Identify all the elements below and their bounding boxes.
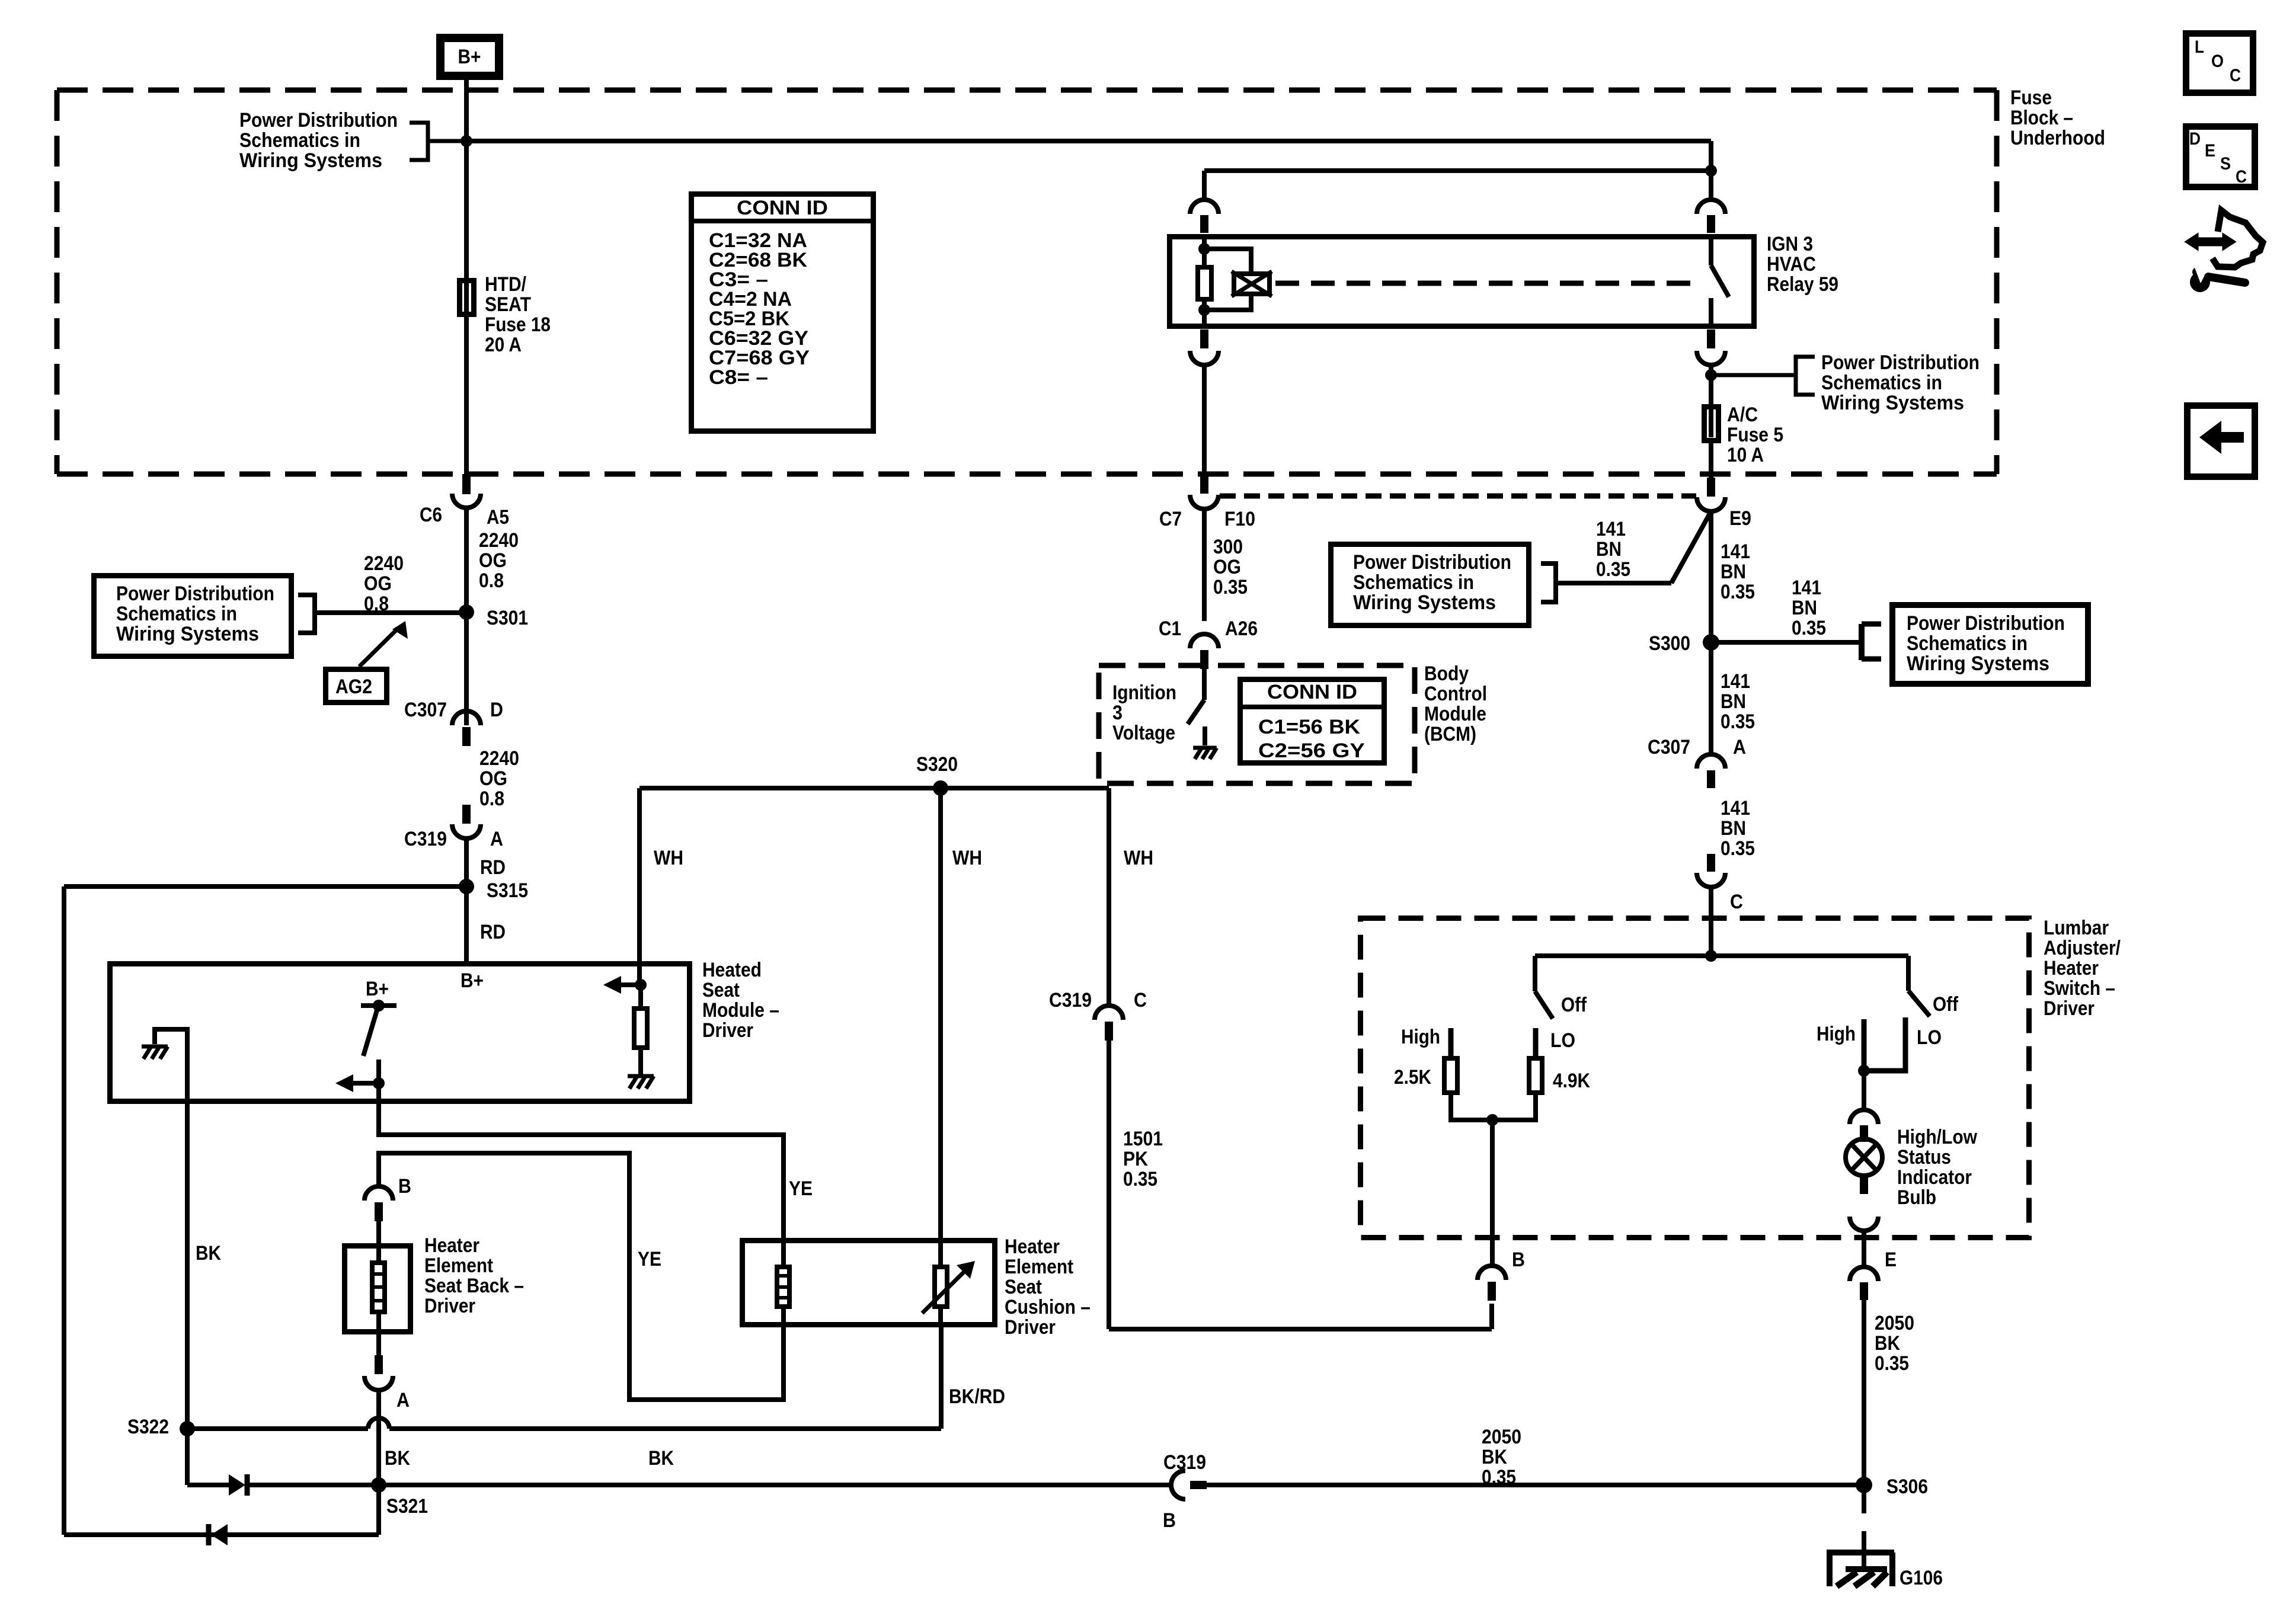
- svg-text:0.35: 0.35: [1792, 617, 1826, 639]
- svg-text:2240: 2240: [479, 529, 519, 552]
- svg-text:Adjuster/: Adjuster/: [2044, 937, 2121, 959]
- node resistor junction: [1486, 1114, 1498, 1126]
- svg-text:Block –: Block –: [2010, 107, 2073, 129]
- module sense resistor: [638, 985, 643, 1006]
- wire S300 branch right: [1711, 640, 1862, 645]
- svg-text:Driver: Driver: [702, 1019, 753, 1042]
- lumbar right High stub: [1862, 1019, 1867, 1071]
- svg-text:C307: C307: [1648, 736, 1690, 758]
- connector C307-C pin: [1707, 854, 1715, 872]
- svg-text:D: D: [490, 699, 503, 721]
- module output arrow: [352, 1081, 379, 1086]
- relay dashed link: [1275, 281, 1693, 286]
- svg-text:E: E: [2205, 141, 2215, 161]
- wire B to element: [376, 1221, 381, 1260]
- BCM dashed box: [1099, 665, 1415, 783]
- lumbar right switch blade: [1908, 991, 1930, 1016]
- svg-text:YE: YE: [638, 1248, 661, 1270]
- svg-text:S301: S301: [487, 607, 528, 629]
- svg-text:0.35: 0.35: [1123, 1168, 1157, 1190]
- CONN ID table: [692, 194, 874, 431]
- connector C1-A26: [1190, 634, 1219, 648]
- bulb bottom connector: [1860, 1176, 1868, 1194]
- svg-text:C307: C307: [404, 699, 447, 721]
- svg-text:S306: S306: [1886, 1475, 1928, 1498]
- svg-text:A: A: [396, 1389, 410, 1411]
- relay left pin connector: [1190, 200, 1219, 214]
- svg-text:Element: Element: [1005, 1256, 1073, 1278]
- svg-text:High: High: [1401, 1026, 1440, 1048]
- node bulb junction: [1858, 1065, 1870, 1077]
- svg-text:Module: Module: [1424, 703, 1486, 725]
- lumbar bus: [1535, 953, 1908, 958]
- svg-text:Driver: Driver: [2044, 997, 2094, 1020]
- wire fuse 5 to E9: [1709, 442, 1713, 478]
- svg-text:Power Distribution: Power Distribution: [239, 109, 398, 132]
- svg-text:A: A: [1733, 736, 1746, 758]
- svg-text:141: 141: [1792, 577, 1821, 599]
- bracket PDS box 1: [298, 595, 315, 633]
- bracket PDS box 2: [1541, 564, 1556, 602]
- svg-text:B+: B+: [458, 46, 481, 68]
- svg-text:A26: A26: [1225, 617, 1258, 640]
- svg-text:High: High: [1817, 1023, 1856, 1045]
- BCM ignition switch blade: [1188, 700, 1204, 724]
- wire S315 to module: [464, 886, 469, 961]
- svg-text:PK: PK: [1123, 1148, 1148, 1170]
- wire YE module to cushion: [379, 1104, 784, 1239]
- wire top bus to relay: [466, 139, 1711, 143]
- connector C6 pin: [462, 474, 471, 494]
- connector C307-C socket: [1697, 873, 1725, 887]
- svg-text:Control: Control: [1424, 683, 1487, 705]
- connector seat back A: [375, 1355, 383, 1374]
- svg-text:C: C: [2236, 167, 2247, 187]
- connector C6 socket: [452, 494, 481, 508]
- cushion variable element: [935, 1267, 947, 1307]
- wire cushion ladder: [781, 1239, 786, 1265]
- svg-text:Module –: Module –: [702, 999, 779, 1022]
- lumbar left switch blade: [1535, 991, 1553, 1019]
- node relay feed junction: [1705, 165, 1717, 177]
- svg-text:4.9K: 4.9K: [1553, 1070, 1590, 1092]
- DESC icon: [2186, 127, 2255, 187]
- svg-text:BN: BN: [1596, 538, 1622, 561]
- wire relay second bus: [1204, 168, 1711, 173]
- svg-text:C319: C319: [1049, 989, 1092, 1012]
- fuse block underhood dashed box: [57, 90, 1997, 474]
- svg-text:S320: S320: [916, 753, 958, 776]
- bracket PDS (relay right): [1711, 373, 1796, 377]
- svg-text:LO: LO: [1550, 1029, 1575, 1052]
- wire relay feed vertical: [1709, 141, 1713, 201]
- module sense junction: [635, 979, 647, 991]
- module sense arrow: [619, 982, 641, 987]
- svg-text:Schematics in: Schematics in: [239, 129, 360, 152]
- wire left BK down: [62, 886, 66, 1535]
- wire A to S321: [376, 1390, 381, 1485]
- wire C1 into BCM: [1202, 669, 1207, 700]
- wire WH left vertical: [637, 788, 642, 985]
- wire 1501 PK horizontal: [1109, 1327, 1492, 1331]
- power distribution box 1: [94, 576, 292, 657]
- power distribution box 2: [1331, 545, 1529, 626]
- wire E9 fork diagonal: [1671, 511, 1711, 583]
- splice S322: [180, 1421, 195, 1436]
- wire relay to C7: [1202, 365, 1207, 475]
- wire BK/RD down: [939, 1326, 944, 1429]
- svg-text:2050: 2050: [1875, 1312, 1914, 1334]
- svg-text:L: L: [2195, 37, 2204, 57]
- svg-text:B: B: [1512, 1249, 1525, 1271]
- svg-text:2240: 2240: [479, 747, 519, 770]
- svg-text:Status: Status: [1897, 1146, 1951, 1169]
- diode D2: [211, 1524, 228, 1545]
- wire S320 down to cushion element: [938, 788, 943, 1239]
- fuse block connector row dotted line: [1220, 494, 1696, 499]
- wire YE return: [379, 1153, 784, 1400]
- svg-text:AG2: AG2: [335, 676, 372, 698]
- relay switch: [1709, 234, 1713, 265]
- power distribution box 3: [1892, 605, 2088, 684]
- relay X box: [1234, 274, 1269, 294]
- bulb top connector: [1850, 1110, 1878, 1124]
- module switch lower stub: [376, 1060, 381, 1083]
- wire bottom diode row: [64, 1532, 379, 1537]
- svg-text:Relay 59: Relay 59: [1767, 273, 1838, 296]
- svg-text:141: 141: [1721, 540, 1750, 563]
- wire bulb to E: [1862, 1231, 1866, 1268]
- svg-text:Power Distribution: Power Distribution: [1821, 351, 1980, 374]
- svg-text:0.8: 0.8: [479, 788, 504, 810]
- svg-text:0.35: 0.35: [1721, 710, 1755, 733]
- wire C319-A to S315: [464, 838, 469, 886]
- connector C319-C: [1095, 1006, 1123, 1020]
- svg-text:Fuse 18: Fuse 18: [485, 313, 551, 336]
- wire module output down: [376, 1083, 381, 1104]
- svg-text:Cushion –: Cushion –: [1005, 1296, 1091, 1318]
- relay right pin connector: [1697, 200, 1725, 214]
- heater element seat back box: [345, 1246, 411, 1332]
- svg-text:Power Distribution: Power Distribution: [1907, 612, 2065, 635]
- svg-text:BK: BK: [1482, 1446, 1507, 1468]
- wire diode to S321: [248, 1483, 379, 1487]
- svg-text:OG: OG: [479, 549, 507, 572]
- svg-text:BK: BK: [196, 1242, 221, 1265]
- svg-text:C319: C319: [1163, 1451, 1206, 1474]
- wire 1501 PK: [1107, 1041, 1111, 1329]
- svg-text:BK: BK: [385, 1447, 410, 1470]
- wire E9 fork horizontal: [1556, 581, 1671, 585]
- svg-text:0.35: 0.35: [1482, 1466, 1516, 1489]
- svg-text:RD: RD: [480, 856, 506, 879]
- svg-text:0.8: 0.8: [479, 569, 504, 592]
- svg-text:Wiring Systems: Wiring Systems: [1907, 652, 2049, 675]
- back arrow icon: [2188, 406, 2255, 477]
- node top junction: [461, 135, 472, 147]
- svg-text:Power Distribution: Power Distribution: [116, 582, 274, 605]
- svg-text:OG: OG: [479, 767, 507, 790]
- connector C7: [1200, 475, 1208, 494]
- connector lumbar B: [1478, 1266, 1506, 1280]
- connector C307-D: [452, 711, 481, 725]
- svg-text:A5: A5: [487, 506, 509, 529]
- wire S301 branch left: [315, 610, 466, 615]
- connector C319-A pin: [462, 805, 471, 824]
- svg-text:A: A: [490, 828, 503, 850]
- svg-text:Schematics in: Schematics in: [1353, 571, 1474, 594]
- wire junction to fuse 18: [464, 141, 469, 280]
- svg-text:0.35: 0.35: [1721, 837, 1755, 860]
- wire S320 bus: [639, 786, 1109, 790]
- svg-text:B: B: [1163, 1509, 1176, 1532]
- svg-text:BK: BK: [1875, 1332, 1900, 1355]
- splice S301: [459, 604, 474, 620]
- svg-text:2050: 2050: [1482, 1426, 1521, 1448]
- relay coil bypass loop: [1204, 249, 1251, 271]
- fuse 18 HTD/SEAT: [460, 281, 474, 315]
- module left ground: [142, 1046, 168, 1059]
- svg-text:WH: WH: [1124, 847, 1153, 869]
- heater element cushion box: [743, 1241, 995, 1325]
- wire E to S306: [1862, 1300, 1866, 1485]
- svg-text:LO: LO: [1917, 1026, 1942, 1049]
- wire S321 line to C319-B: [379, 1483, 1171, 1487]
- svg-text:Seat Back –: Seat Back –: [424, 1275, 524, 1297]
- svg-text:G106: G106: [1900, 1567, 1943, 1589]
- svg-text:IGN 3: IGN 3: [1767, 233, 1813, 255]
- svg-text:Element: Element: [424, 1254, 493, 1277]
- splice S320: [933, 780, 948, 796]
- svg-text:300: 300: [1213, 536, 1243, 558]
- resistor 4.9K: [1529, 1058, 1542, 1093]
- connector C307-A: [1697, 754, 1725, 769]
- module left ground branch: [155, 1029, 187, 1104]
- connector seat back B: [364, 1186, 393, 1201]
- svg-text:(BCM): (BCM): [1424, 723, 1476, 745]
- svg-text:B+: B+: [366, 978, 389, 1000]
- wire element to A: [376, 1314, 381, 1356]
- module output junction: [373, 1077, 385, 1089]
- connector E9: [1707, 478, 1715, 497]
- diode D1: [229, 1474, 245, 1496]
- svg-text:C: C: [1730, 891, 1743, 913]
- splice S306: [1856, 1477, 1872, 1493]
- relay coil: [1198, 267, 1211, 299]
- svg-text:1501: 1501: [1123, 1128, 1163, 1150]
- svg-text:C1=56 BK: C1=56 BK: [1258, 716, 1360, 738]
- svg-text:Bulb: Bulb: [1897, 1186, 1936, 1209]
- relay left out pin: [1200, 329, 1208, 348]
- svg-text:Driver: Driver: [424, 1295, 475, 1317]
- LOC icon: [2186, 34, 2253, 93]
- bracket to power distribution (top left): [410, 123, 428, 160]
- svg-text:BN: BN: [1721, 690, 1746, 713]
- svg-text:B+: B+: [461, 969, 484, 992]
- svg-text:Lumbar: Lumbar: [2044, 917, 2109, 939]
- svg-text:Body: Body: [1424, 662, 1469, 685]
- lumbar LO contact stub: [1533, 1028, 1539, 1057]
- svg-text:C7: C7: [1159, 508, 1182, 530]
- AG2 arrow: [359, 628, 398, 667]
- module switch contact bar: [361, 1003, 396, 1008]
- svg-text:BN: BN: [1792, 597, 1817, 619]
- wire relay out to junction: [1709, 365, 1713, 405]
- svg-text:F10: F10: [1224, 508, 1255, 530]
- lumbar right switch stub: [1906, 956, 1911, 991]
- wire S322 to diode: [187, 1483, 229, 1487]
- svg-text:S315: S315: [487, 879, 528, 902]
- wire junction to B: [1490, 1120, 1495, 1267]
- svg-text:2.5K: 2.5K: [1394, 1066, 1431, 1089]
- cushion variable arrow: [922, 1272, 964, 1313]
- svg-text:0.35: 0.35: [1875, 1352, 1909, 1375]
- svg-text:Schematics in: Schematics in: [1907, 632, 2028, 655]
- connector E: [1850, 1267, 1878, 1281]
- BCM switch lower stub: [1203, 726, 1207, 745]
- svg-text:WH: WH: [952, 847, 982, 869]
- wire C6 to S301: [464, 508, 469, 613]
- connector C319-B: [1171, 1471, 1185, 1499]
- svg-text:S: S: [2220, 154, 2231, 174]
- wire fuse 18 to C6: [464, 317, 469, 475]
- svg-text:B: B: [398, 1175, 411, 1198]
- svg-text:C: C: [1134, 989, 1147, 1012]
- relay coil wire top: [1202, 234, 1207, 265]
- wire S301 to C307-D: [464, 612, 469, 725]
- svg-text:Heater: Heater: [424, 1234, 479, 1257]
- resistor 2.5K: [1444, 1058, 1457, 1093]
- wire BK module to S322: [185, 1104, 190, 1429]
- splice S300: [1703, 634, 1719, 651]
- svg-text:O: O: [2211, 52, 2224, 71]
- svg-text:Schematics in: Schematics in: [116, 603, 237, 625]
- svg-text:Voltage: Voltage: [1112, 722, 1175, 744]
- lumbar left switch stub: [1533, 956, 1537, 991]
- wire B+ down to junction: [464, 80, 469, 142]
- svg-text:C6: C6: [420, 504, 442, 526]
- svg-text:0.35: 0.35: [1596, 558, 1630, 581]
- svg-text:BK: BK: [648, 1447, 674, 1470]
- svg-text:OG: OG: [364, 572, 392, 595]
- ground G106: [1830, 1553, 1894, 1586]
- svg-text:C319: C319: [404, 828, 447, 850]
- indicator bulb: [1846, 1139, 1882, 1176]
- svg-text:10 A: 10 A: [1727, 444, 1764, 466]
- svg-text:Heater: Heater: [1005, 1235, 1060, 1258]
- svg-text:C8= –: C8= –: [709, 366, 768, 389]
- svg-text:0.35: 0.35: [1213, 576, 1248, 598]
- bracket PDS box 3: [1859, 624, 1865, 660]
- wire to lumbar B: [1489, 1304, 1494, 1329]
- fuse 5 A/C: [1705, 407, 1719, 441]
- cushion element symbol: [777, 1267, 789, 1307]
- svg-text:WH: WH: [654, 847, 683, 869]
- wire S315 branch left: [64, 884, 466, 889]
- svg-text:E9: E9: [1729, 507, 1751, 530]
- lumbar bus junction: [1705, 950, 1717, 962]
- svg-text:C1: C1: [1159, 617, 1181, 640]
- wire C7 to C1: [1202, 509, 1207, 621]
- dog wrench icon: [2212, 210, 2263, 267]
- svg-text:141: 141: [1721, 797, 1750, 820]
- lumbar High contact stub: [1448, 1028, 1454, 1057]
- lumbar switch dashed box: [1361, 918, 2029, 1238]
- svg-text:HVAC: HVAC: [1767, 253, 1816, 276]
- svg-text:OG: OG: [1213, 556, 1241, 578]
- svg-text:BN: BN: [1721, 561, 1746, 583]
- svg-text:Seat: Seat: [702, 979, 740, 1001]
- svg-text:CONN ID: CONN ID: [1267, 681, 1357, 703]
- svg-text:Wiring Systems: Wiring Systems: [1353, 591, 1496, 614]
- svg-text:E: E: [1885, 1249, 1897, 1271]
- wire C into lumbar box: [1709, 887, 1713, 956]
- svg-text:Seat: Seat: [1005, 1276, 1042, 1298]
- svg-text:A/C: A/C: [1727, 404, 1758, 426]
- svg-text:C2=56 GY: C2=56 GY: [1258, 740, 1365, 762]
- svg-text:3: 3: [1112, 702, 1123, 724]
- svg-text:Schematics in: Schematics in: [1821, 372, 1942, 394]
- splice S315: [459, 879, 474, 894]
- svg-text:Underhood: Underhood: [2010, 127, 2105, 149]
- svg-text:S321: S321: [386, 1495, 428, 1518]
- IGN3 HVAC relay box: [1170, 237, 1754, 327]
- svg-text:Wiring Systems: Wiring Systems: [1821, 392, 1964, 414]
- svg-text:Driver: Driver: [1005, 1316, 1056, 1339]
- relay coil wire bottom: [1202, 302, 1207, 329]
- splice S321: [371, 1477, 386, 1493]
- heater element seat back symbol: [372, 1263, 385, 1312]
- BCM ground: [1193, 748, 1217, 759]
- svg-text:Power Distribution: Power Distribution: [1353, 551, 1511, 574]
- svg-text:Fuse 5: Fuse 5: [1727, 424, 1783, 446]
- wire S320 right branch down: [1107, 788, 1111, 1006]
- svg-text:Indicator: Indicator: [1897, 1166, 1972, 1189]
- svg-text:141: 141: [1721, 670, 1750, 693]
- svg-text:High/Low: High/Low: [1897, 1126, 1977, 1148]
- AG2 callout box: [326, 670, 387, 703]
- svg-text:C: C: [2230, 66, 2241, 85]
- svg-text:20 A: 20 A: [485, 334, 522, 356]
- svg-text:Wiring Systems: Wiring Systems: [239, 149, 382, 172]
- battery B+ terminal box: [440, 38, 499, 76]
- svg-text:Fuse: Fuse: [2010, 87, 2052, 109]
- node AC junction: [1705, 369, 1717, 381]
- svg-text:HTD/: HTD/: [485, 273, 526, 296]
- svg-text:D: D: [2189, 129, 2201, 149]
- wire S306 to ground dashed: [1862, 1485, 1866, 1513]
- wire S322 down: [185, 1429, 190, 1485]
- wire S322 bus: [187, 1426, 368, 1431]
- wire S321 drop: [376, 1485, 381, 1535]
- svg-text:RD: RD: [480, 921, 506, 943]
- svg-text:Heated: Heated: [702, 959, 762, 981]
- lumbar right LO stub: [1864, 1017, 1905, 1071]
- wire resistors join: [1451, 1095, 1536, 1120]
- svg-text:S300: S300: [1649, 632, 1690, 655]
- svg-text:BK/RD: BK/RD: [949, 1385, 1005, 1408]
- svg-text:Switch –: Switch –: [2044, 977, 2115, 1000]
- svg-text:YE: YE: [789, 1177, 813, 1200]
- wire relay left pin: [1202, 171, 1207, 201]
- BCM CONN ID table: [1240, 680, 1384, 763]
- svg-text:0.35: 0.35: [1721, 581, 1755, 603]
- heated seat module box: [110, 964, 690, 1102]
- svg-text:SEAT: SEAT: [485, 293, 531, 316]
- svg-text:Ignition: Ignition: [1112, 681, 1176, 704]
- svg-text:2240: 2240: [364, 552, 404, 575]
- svg-text:S322: S322: [127, 1416, 169, 1438]
